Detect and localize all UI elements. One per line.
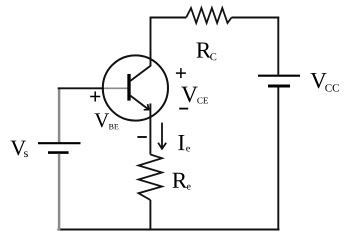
wire top left (collector node to RC) xyxy=(150,17,187,19)
wire Re to bottom rail xyxy=(149,200,151,230)
transistor Q1 emitter arrowhead xyxy=(144,104,149,110)
wire emitter vertical xyxy=(149,104,151,155)
plus sign of VBE xyxy=(90,91,100,101)
wire left vertical upper xyxy=(58,88,61,143)
minus sign of VCE xyxy=(179,108,188,110)
battery VCC negative plate xyxy=(268,85,290,88)
transistor Q1 collector lead xyxy=(130,18,151,82)
transistor Q1 base bar xyxy=(127,74,130,101)
current arrow Ie shaft xyxy=(161,123,163,147)
minus sign of VBE at emitter xyxy=(137,136,146,138)
transistor Q1 circle xyxy=(103,55,168,120)
label VCC xyxy=(310,73,326,88)
wire bottom rail xyxy=(58,229,280,231)
battery VS positive plate xyxy=(38,142,81,144)
label Ie xyxy=(178,135,184,150)
battery VS negative plate xyxy=(48,151,69,154)
label VCE xyxy=(181,87,197,103)
plus sign of VCE xyxy=(176,68,186,78)
wire left vertical lower xyxy=(58,154,61,230)
resistor RC xyxy=(186,8,231,23)
wire base lead inside circle xyxy=(104,87,128,89)
wire right vertical lower xyxy=(277,88,279,231)
current arrow Ie head xyxy=(158,143,166,149)
wire right vertical upper xyxy=(277,17,279,75)
label Re xyxy=(172,173,187,188)
label VS xyxy=(11,141,26,156)
wire base lead xyxy=(58,87,104,89)
battery VCC positive plate xyxy=(258,75,300,77)
label RC xyxy=(196,43,211,58)
transistor Q1 emitter lead xyxy=(130,95,149,110)
wire top right (RC to VCC) xyxy=(232,17,280,19)
label VBE xyxy=(94,113,109,127)
resistor Re xyxy=(139,155,163,201)
